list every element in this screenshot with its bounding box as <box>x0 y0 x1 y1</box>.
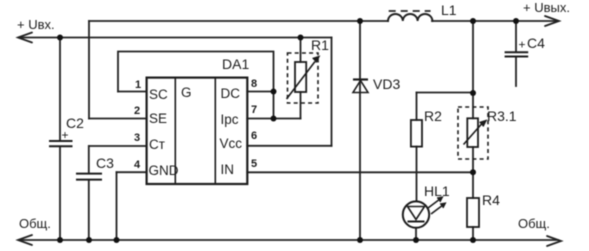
svg-text:R4: R4 <box>482 192 500 208</box>
svg-text:VD3: VD3 <box>373 76 400 92</box>
svg-text:R1: R1 <box>311 37 329 53</box>
svg-text:G: G <box>181 85 192 100</box>
svg-text:4: 4 <box>134 159 141 171</box>
svg-text:Cт: Cт <box>149 137 165 152</box>
svg-text:+ Uвых.: + Uвых. <box>523 0 570 15</box>
svg-text:R2: R2 <box>424 108 442 124</box>
svg-text:SE: SE <box>149 111 167 126</box>
svg-text:Ipc: Ipc <box>221 112 239 127</box>
svg-text:HL1: HL1 <box>424 183 450 199</box>
svg-text:6: 6 <box>251 130 257 142</box>
svg-text:+: + <box>62 128 69 142</box>
svg-text:3: 3 <box>134 132 140 144</box>
svg-text:L1: L1 <box>441 2 457 18</box>
svg-text:GND: GND <box>149 163 179 178</box>
svg-text:+ Uвх.: + Uвх. <box>17 17 55 32</box>
svg-text:Общ.: Общ. <box>518 216 550 231</box>
svg-text:DA1: DA1 <box>222 56 249 72</box>
svg-text:SC: SC <box>149 87 168 102</box>
svg-text:7: 7 <box>251 104 257 116</box>
svg-text:C4: C4 <box>527 35 545 51</box>
svg-text:DC: DC <box>221 86 241 101</box>
svg-text:Общ.: Общ. <box>19 216 51 231</box>
svg-text:5: 5 <box>251 158 257 170</box>
svg-text:C3: C3 <box>96 155 114 171</box>
svg-text:8: 8 <box>251 78 257 90</box>
svg-text:+: + <box>519 38 526 52</box>
svg-text:R3.1: R3.1 <box>487 108 517 124</box>
svg-text:C2: C2 <box>66 115 84 131</box>
svg-text:2: 2 <box>134 105 140 117</box>
svg-text:1: 1 <box>135 79 141 91</box>
svg-text:Vcc: Vcc <box>220 136 243 151</box>
svg-text:IN: IN <box>221 162 235 177</box>
